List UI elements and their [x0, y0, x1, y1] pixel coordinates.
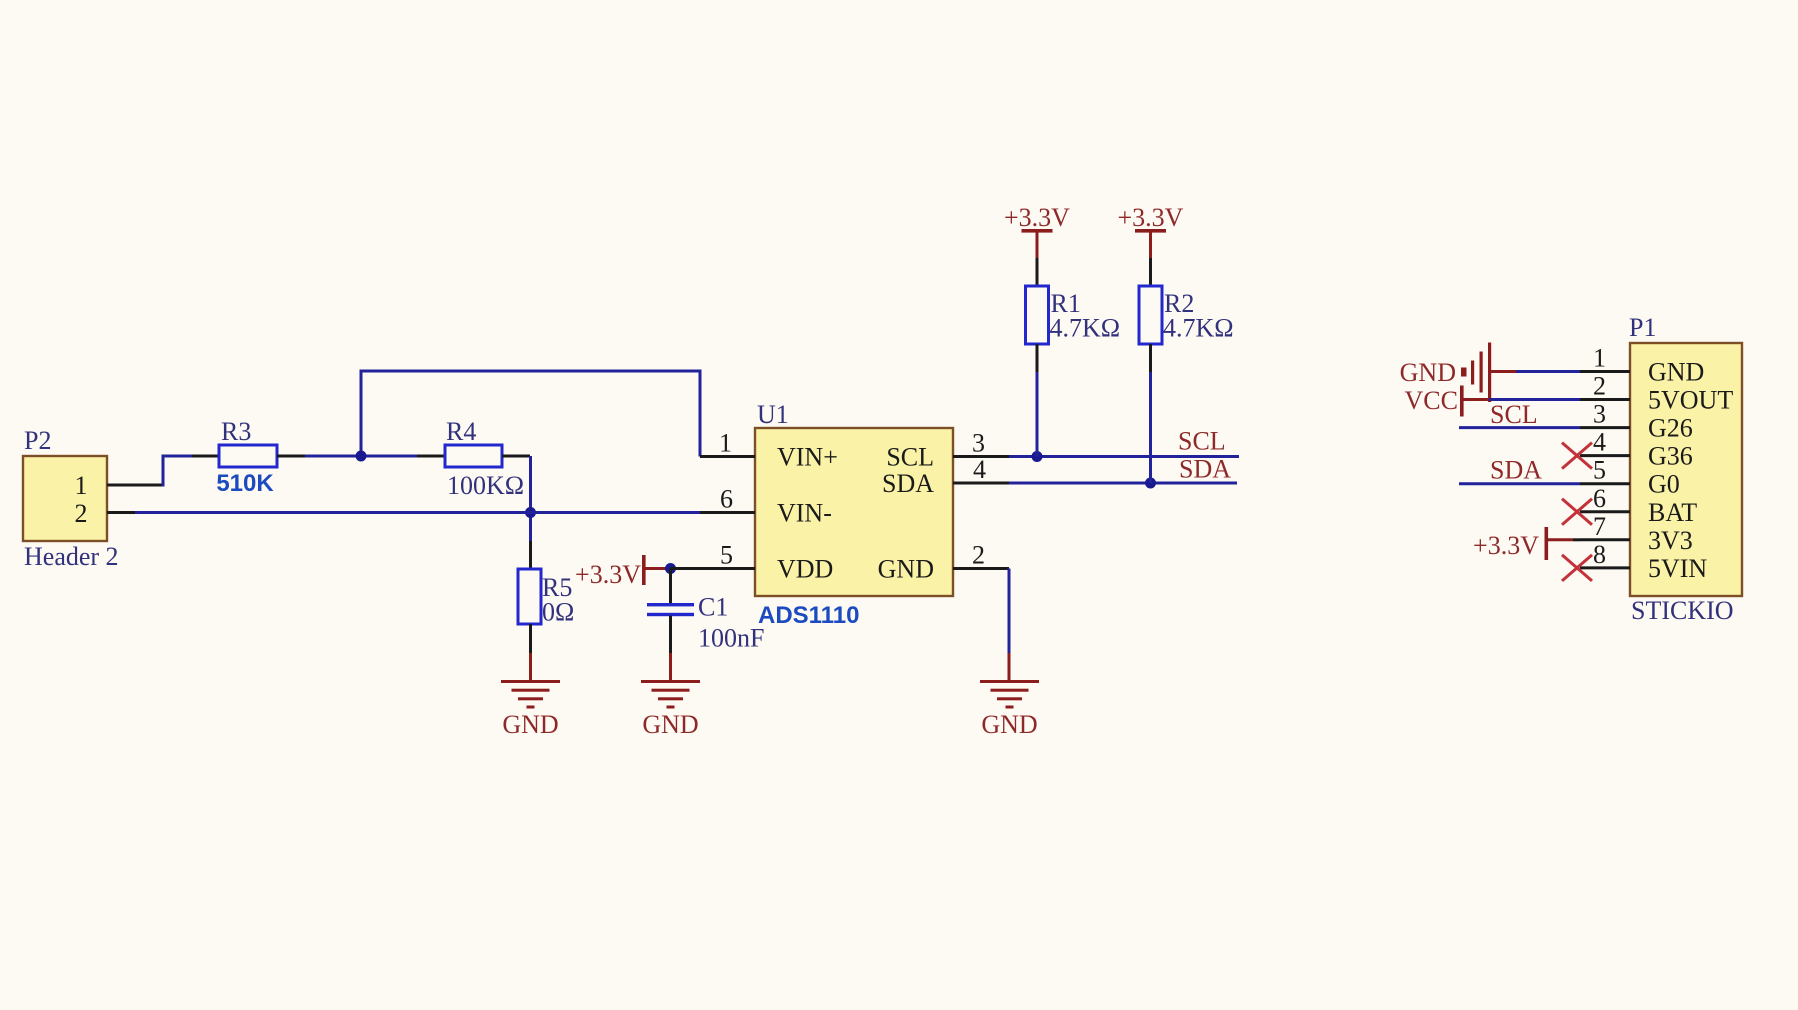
- svg-text:G0: G0: [1648, 470, 1680, 499]
- svg-text:2: 2: [972, 541, 985, 570]
- svg-text:GND: GND: [1648, 358, 1704, 387]
- svg-text:SCL: SCL: [1178, 427, 1226, 456]
- svg-text:Header 2: Header 2: [24, 542, 119, 571]
- svg-text:SDA: SDA: [1179, 455, 1231, 484]
- svg-text:VIN+: VIN+: [777, 443, 838, 472]
- svg-text:6: 6: [720, 485, 733, 514]
- svg-text:+3.3V: +3.3V: [1118, 203, 1184, 232]
- svg-text:8: 8: [1593, 540, 1606, 569]
- svg-text:3: 3: [1593, 400, 1606, 429]
- svg-text:GND: GND: [1400, 358, 1456, 387]
- svg-text:G36: G36: [1648, 442, 1693, 471]
- svg-text:P1: P1: [1629, 313, 1656, 342]
- svg-text:5: 5: [1593, 456, 1606, 485]
- svg-text:U1: U1: [757, 400, 789, 429]
- svg-text:VIN-: VIN-: [777, 499, 832, 528]
- svg-text:1: 1: [75, 471, 88, 500]
- svg-text:G26: G26: [1648, 414, 1693, 443]
- svg-text:4: 4: [1593, 428, 1606, 457]
- svg-text:3V3: 3V3: [1648, 526, 1693, 555]
- svg-text:4: 4: [973, 455, 986, 484]
- svg-text:SDA: SDA: [882, 469, 934, 498]
- svg-text:4.7KΩ: 4.7KΩ: [1050, 314, 1121, 343]
- svg-text:2: 2: [1593, 372, 1606, 401]
- svg-text:R3: R3: [221, 417, 251, 446]
- svg-text:SCL: SCL: [886, 443, 934, 472]
- svg-text:1: 1: [1593, 344, 1606, 373]
- svg-text:5VOUT: 5VOUT: [1648, 386, 1733, 415]
- svg-text:1: 1: [719, 429, 732, 458]
- svg-text:P2: P2: [24, 426, 51, 455]
- svg-text:+3.3V: +3.3V: [1473, 531, 1539, 560]
- svg-text:SCL: SCL: [1490, 400, 1538, 429]
- svg-text:+3.3V: +3.3V: [1004, 203, 1070, 232]
- svg-text:100KΩ: 100KΩ: [447, 471, 524, 500]
- svg-text:5VIN: 5VIN: [1648, 554, 1707, 583]
- svg-text:7: 7: [1593, 512, 1606, 541]
- svg-text:GND: GND: [981, 710, 1037, 739]
- svg-text:5: 5: [720, 541, 733, 570]
- svg-text:VCC: VCC: [1405, 386, 1458, 415]
- svg-text:510K: 510K: [216, 470, 274, 497]
- svg-text:3: 3: [972, 429, 985, 458]
- svg-text:C1: C1: [698, 593, 728, 622]
- svg-text:GND: GND: [642, 710, 698, 739]
- svg-text:GND: GND: [502, 710, 558, 739]
- svg-text:STICKIO: STICKIO: [1631, 596, 1734, 625]
- svg-text:100nF: 100nF: [698, 624, 764, 653]
- svg-text:0Ω: 0Ω: [542, 598, 574, 627]
- svg-text:SDA: SDA: [1490, 456, 1542, 485]
- svg-text:VDD: VDD: [777, 555, 833, 584]
- svg-text:BAT: BAT: [1648, 498, 1697, 527]
- svg-text:GND: GND: [878, 555, 934, 584]
- svg-text:2: 2: [75, 499, 88, 528]
- svg-text:R4: R4: [446, 417, 476, 446]
- svg-text:+3.3V: +3.3V: [575, 560, 641, 589]
- svg-text:6: 6: [1593, 484, 1606, 513]
- svg-text:ADS1110: ADS1110: [758, 602, 859, 629]
- svg-text:4.7KΩ: 4.7KΩ: [1163, 314, 1234, 343]
